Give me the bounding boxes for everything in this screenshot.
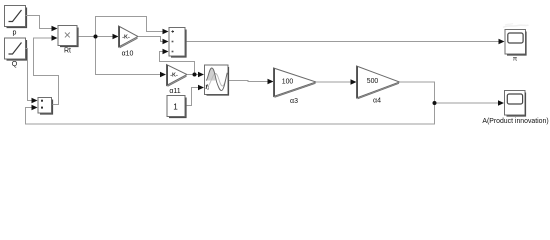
arrowhead divide in2 xyxy=(32,105,38,111)
arrowhead sum in1 xyxy=(163,29,169,35)
arrowhead a10 in xyxy=(113,34,119,40)
wire Rt out to node N1 xyxy=(79,36,96,38)
product block Rt xyxy=(58,26,78,47)
arrowhead scope A in xyxy=(498,100,504,106)
wire N2 to sum in3 xyxy=(160,52,195,75)
wire N1 to sum in1 xyxy=(96,17,163,37)
ghost artifact above scope pi xyxy=(503,25,529,28)
svg-text:α4: α4 xyxy=(373,98,381,105)
source block p xyxy=(5,6,27,28)
node N3 xyxy=(433,101,437,105)
arrowhead a4 in xyxy=(351,79,357,85)
arrowhead a11 in xyxy=(160,72,166,78)
gain block a10 xyxy=(119,26,139,48)
scope block A xyxy=(505,91,526,117)
arrowhead Rt in2 xyxy=(52,35,58,41)
gain block a4 xyxy=(357,66,400,99)
wire N1 to a11 in xyxy=(96,37,161,75)
svg-text:100: 100 xyxy=(282,78,294,85)
arrowhead fi in2 xyxy=(198,85,204,91)
arrowhead sum in3 xyxy=(163,49,169,55)
sum block S1 xyxy=(169,28,186,58)
svg-text:Rt: Rt xyxy=(64,48,71,55)
wire N1 to a10 xyxy=(96,36,113,38)
node N1 xyxy=(94,35,98,39)
wire sum out to scope pi xyxy=(187,41,500,43)
arrowhead fi in1 xyxy=(198,72,204,78)
svg-text:500: 500 xyxy=(367,78,379,85)
gain block a11 xyxy=(167,65,188,87)
svg-text:α11: α11 xyxy=(169,88,180,95)
wire N3 to scope A xyxy=(435,102,499,104)
svg-text:α3: α3 xyxy=(290,98,298,105)
wire constant one to fi in2 xyxy=(187,88,199,106)
arrowhead a3 in xyxy=(268,79,274,85)
svg-text:-K-: -K- xyxy=(122,35,130,41)
svg-text:π: π xyxy=(513,56,518,63)
scope block pi xyxy=(505,30,526,56)
constant block one xyxy=(167,96,186,118)
arrowhead divide in1 xyxy=(32,98,38,104)
arrowhead Rt in1 xyxy=(52,26,58,32)
wire a3 to a4 xyxy=(316,81,351,83)
wire a4 out to node N3 xyxy=(400,82,435,103)
wire Q to divide in1 xyxy=(26,49,32,101)
wire a10 out to sum in2 xyxy=(138,37,163,42)
node N2 xyxy=(193,73,197,77)
source block Q xyxy=(5,38,27,60)
function block fi xyxy=(205,65,229,95)
arrowhead scope pi in xyxy=(499,39,505,45)
wire fi out to a3 xyxy=(229,81,268,82)
svg-text:1: 1 xyxy=(173,102,178,111)
gain block a3 xyxy=(274,68,317,97)
svg-text:A(Product innovation): A(Product innovation) xyxy=(482,118,548,125)
arrowhead sum in2 xyxy=(163,39,169,45)
svg-text:α10: α10 xyxy=(122,51,134,58)
svg-text:Q: Q xyxy=(12,61,18,68)
svg-text:-K-: -K- xyxy=(170,73,178,79)
wire a11 out to node N2 xyxy=(187,74,199,76)
wire N3 feedback to divide in2 xyxy=(26,103,435,124)
divide block D1 xyxy=(38,98,53,115)
wire p to Rt in1 xyxy=(26,16,52,29)
wire divide out to Rt in2 xyxy=(34,38,59,105)
svg-text:p: p xyxy=(13,30,17,37)
